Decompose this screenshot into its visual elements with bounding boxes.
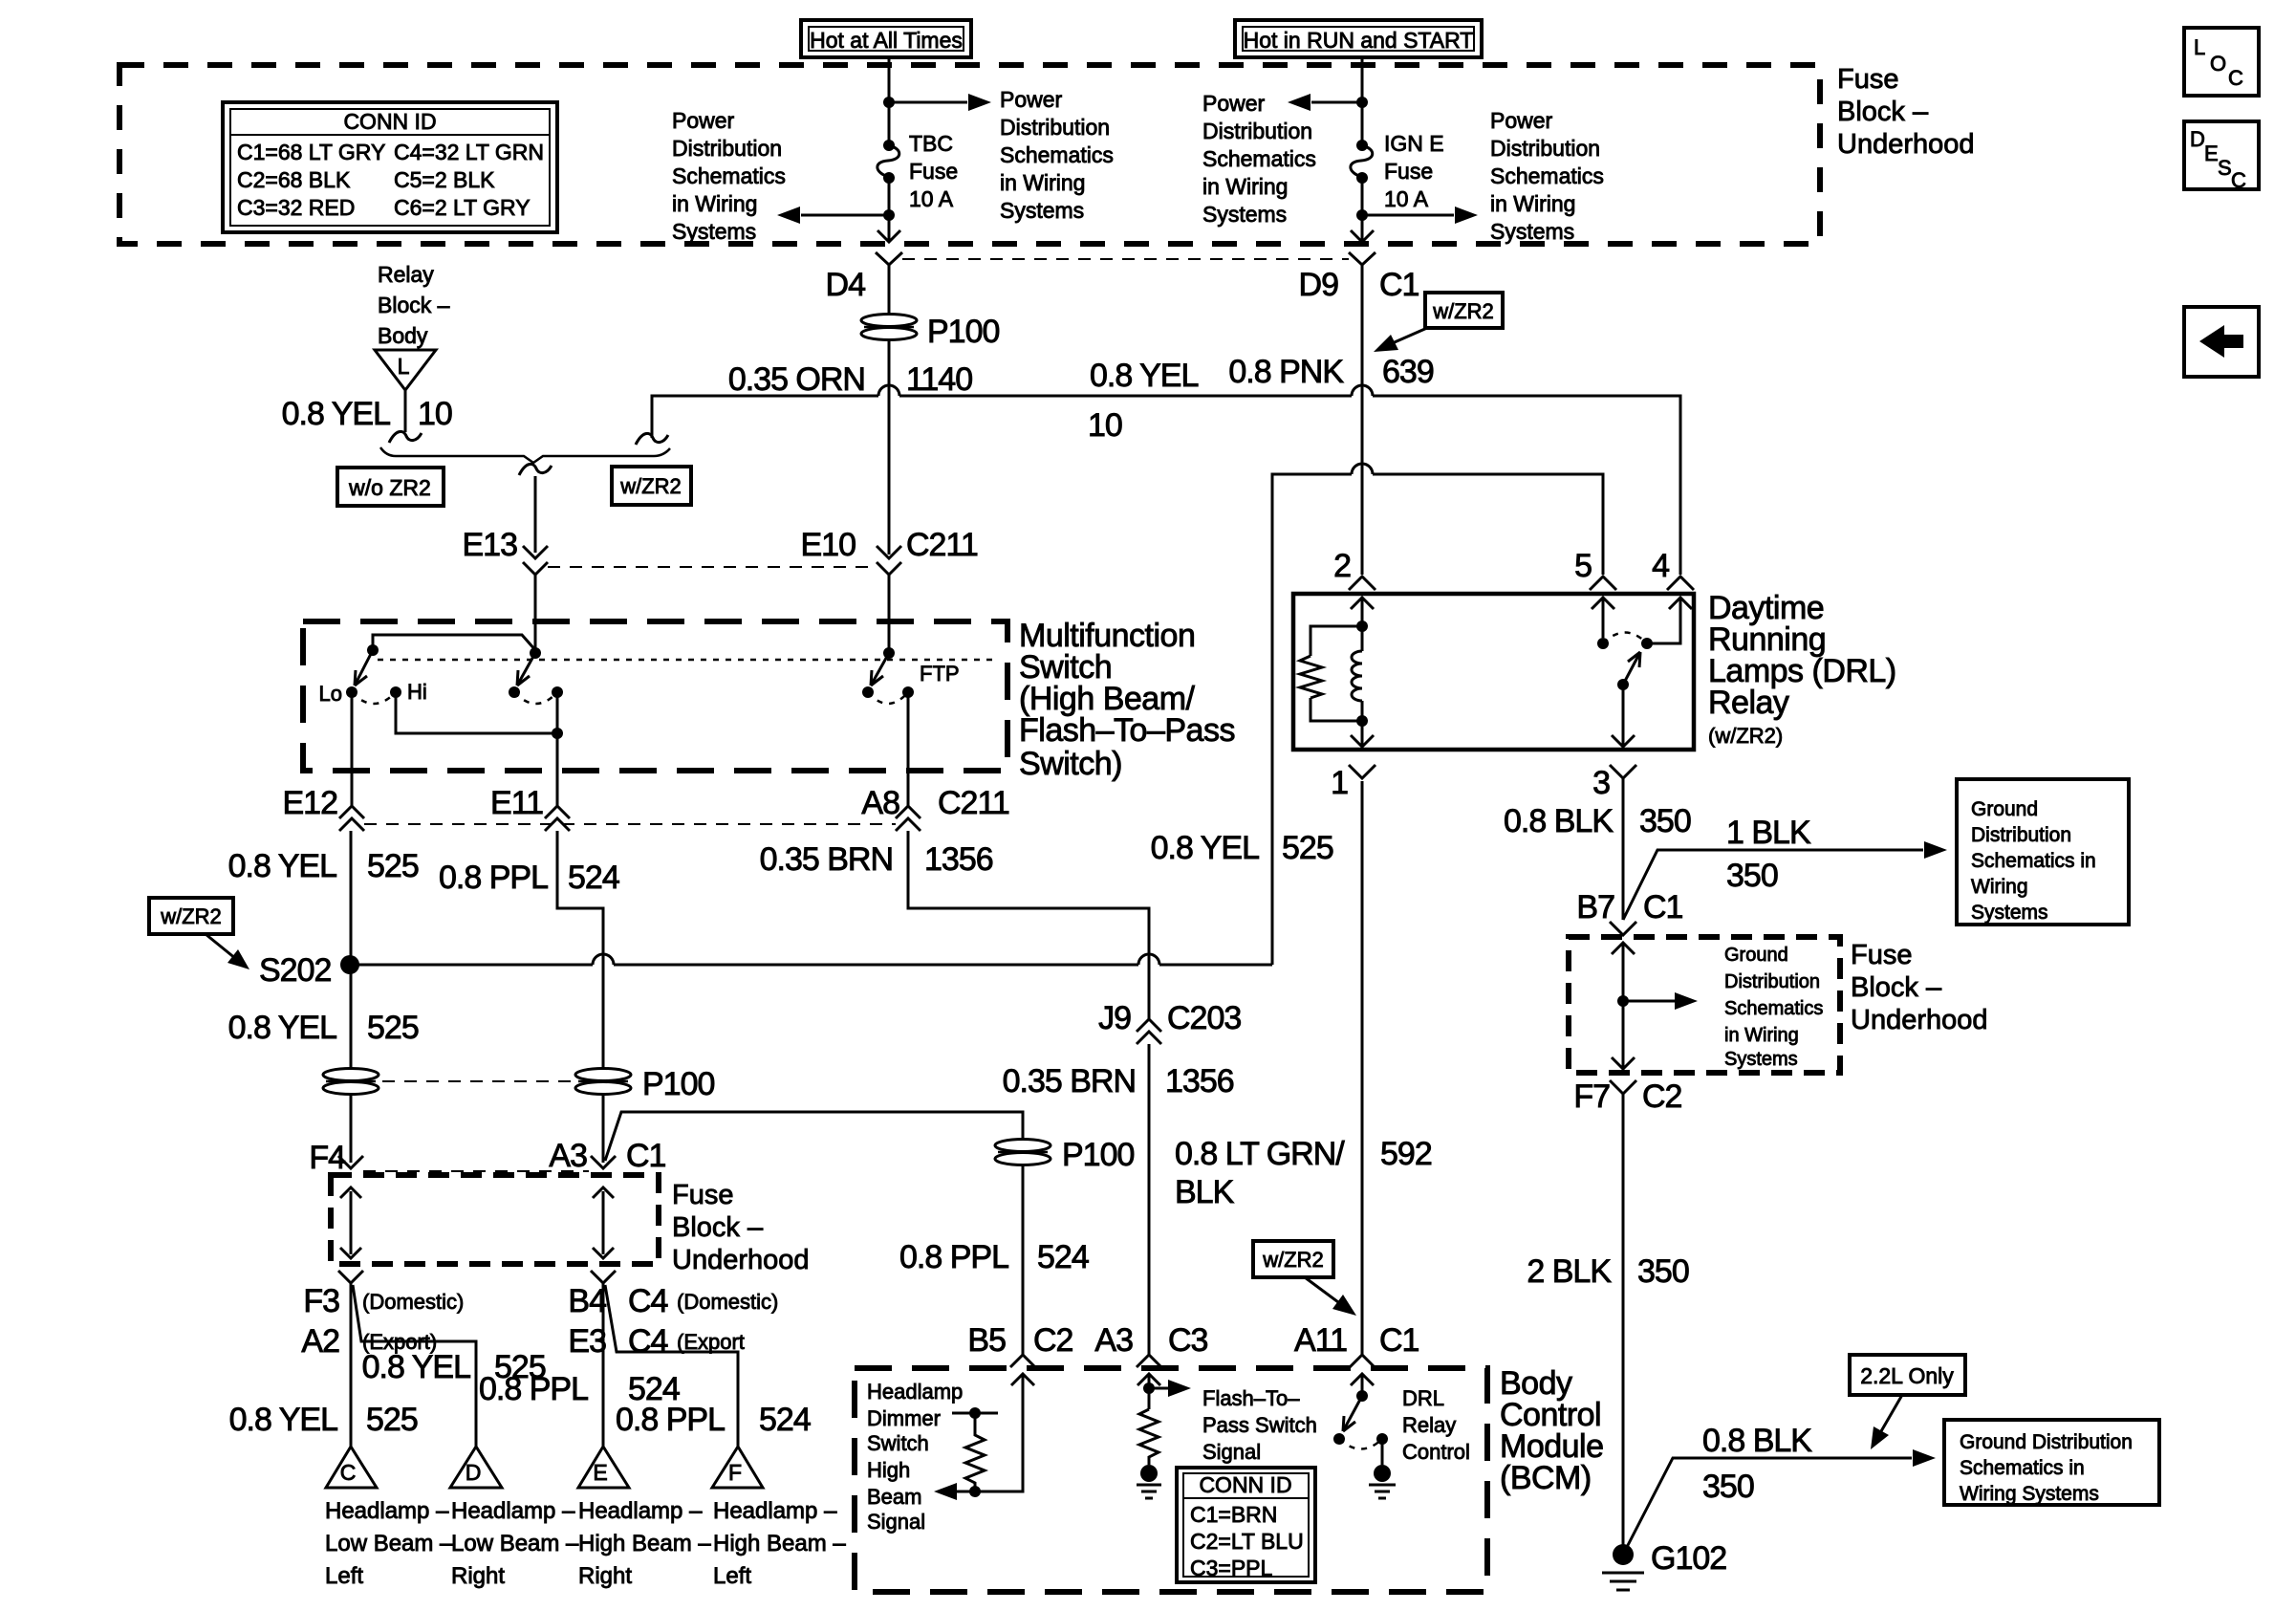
- svg-text:C1: C1: [1643, 889, 1683, 925]
- svg-text:Underhood: Underhood: [672, 1245, 810, 1275]
- connector: F7/C2 half: [1610, 1080, 1636, 1094]
- label: Headlamp High Beam Right: [578, 1498, 711, 1589]
- connector C211 E13 half: [523, 546, 548, 575]
- connector: relay pin 2: [1349, 577, 1375, 590]
- svg-text:525: 525: [367, 848, 419, 884]
- svg-text:0.8 PPL: 0.8 PPL: [899, 1239, 1008, 1275]
- connector: bulkhead dashed link D4-D9: [902, 258, 1349, 260]
- resistor: headlamp dimmer switch high beam: [965, 1418, 985, 1491]
- svg-text:B4: B4: [568, 1283, 606, 1319]
- svg-text:639: 639: [1382, 354, 1434, 390]
- svg-text:Distribution: Distribution: [1724, 971, 1820, 992]
- relay: Daytime Running Lamps relay box: [1293, 594, 1694, 750]
- svg-text:in Wiring: in Wiring: [672, 191, 757, 216]
- svg-text:Systems: Systems: [1000, 198, 1084, 223]
- wire: IGN E fuse to D9 with right arrow: [1361, 178, 1364, 241]
- switch arm: flash-to-pass: [871, 653, 889, 686]
- label: Headlamp Dimmer Switch High Beam Signal: [867, 1380, 963, 1534]
- svg-text:C211: C211: [938, 785, 1009, 821]
- node: FTP signal junction: [1143, 1382, 1155, 1394]
- svg-text:High Beam –: High Beam –: [713, 1531, 846, 1557]
- label: Body Control Module (BCM): [1500, 1365, 1604, 1496]
- svg-text:C4=32 LT GRN: C4=32 LT GRN: [394, 140, 544, 164]
- arc: relay switch throw: [1603, 633, 1647, 644]
- connector: dashed link between P100 grommets: [382, 1080, 572, 1082]
- svg-text:524: 524: [1037, 1239, 1089, 1275]
- svg-text:10: 10: [1088, 407, 1122, 444]
- arc: DRL control switch throw: [1339, 1439, 1382, 1449]
- svg-text:Block –: Block –: [1837, 97, 1929, 127]
- label: G102: [1651, 1540, 1726, 1577]
- callout box 2.2L Only: [1850, 1355, 1965, 1395]
- connector C211 A8 half: [896, 806, 921, 831]
- node: Hot at All Times feed box: [801, 20, 971, 57]
- svg-text:C6=2 LT GRY: C6=2 LT GRY: [394, 195, 531, 220]
- label: A3 C1 (fuse block): [549, 1138, 665, 1174]
- svg-text:Power: Power: [1202, 91, 1266, 116]
- terminal: headlamp C triangle: [326, 1447, 377, 1488]
- label: J9 C203: [1098, 1000, 1241, 1036]
- wire: dimmer resistor top tee: [952, 1412, 998, 1415]
- connector C100 D4 half: [876, 252, 902, 265]
- svg-text:S202: S202: [259, 952, 331, 989]
- label: relay pin 2: [1333, 548, 1351, 584]
- arrow: w/ZR2 callout to S202: [206, 934, 249, 969]
- arc: high beam switch throw: [514, 692, 557, 704]
- svg-text:1 BLK: 1 BLK: [1726, 815, 1811, 851]
- svg-text:C: C: [2231, 168, 2246, 192]
- label: IGN E Fuse 10 A: [1384, 131, 1444, 211]
- svg-text:A3: A3: [1094, 1322, 1133, 1359]
- junction hop: S202 bus over BRN wire: [1138, 954, 1159, 965]
- wire: S202 splice bus to relay feed: [350, 964, 1272, 967]
- node: fuse block ground junction: [1617, 995, 1629, 1007]
- wire: S202 down to P100: [350, 965, 353, 1074]
- svg-text:Systems: Systems: [1724, 1049, 1798, 1070]
- connector: relay pin 4: [1667, 577, 1694, 590]
- label: power distribution schematics (right of IGN E): [1490, 108, 1604, 244]
- label: P100 (high beam feed): [1062, 1137, 1134, 1173]
- node: FTP pivot: [883, 647, 895, 659]
- wire: 0.8 BLK 350 branch to ground distribution: [1625, 1449, 1936, 1551]
- label: 0.8 BLK 350: [1504, 803, 1691, 839]
- svg-text:J9: J9: [1098, 1000, 1131, 1036]
- svg-text:D: D: [2190, 127, 2205, 151]
- connector: BCM B5 half: [1010, 1355, 1035, 1367]
- label: power distribution schematics (right of TBC): [1000, 87, 1114, 223]
- svg-text:Ground Distribution: Ground Distribution: [1960, 1431, 2133, 1453]
- label: E12: [283, 785, 338, 821]
- wire: arrow to flash-to-pass signal: [1149, 1380, 1191, 1397]
- connector: BCM A11 half: [1350, 1355, 1375, 1367]
- node: coil top junction: [1356, 620, 1368, 632]
- arrow: w/ZR2 callout to 592 wire: [1305, 1277, 1356, 1316]
- label: Lo: [319, 682, 342, 706]
- label: relay pin 5: [1574, 548, 1592, 584]
- wire: Hi contact to E11 column: [396, 692, 557, 733]
- junction hop: pin5 branch over PNK wire: [1352, 464, 1373, 474]
- terminal: headlamp F triangle: [712, 1447, 763, 1488]
- node: relay armature pivot: [1617, 679, 1629, 690]
- fuse block underhood dashed enclosure (ground): [1569, 937, 1840, 1073]
- arc: dimmer switch throw: [352, 692, 396, 704]
- callout box w/ZR2 at S202: [149, 898, 233, 934]
- label: 0.35 ORN 1140: [728, 361, 972, 398]
- label: 0.8 PPL 524 (branch E): [479, 1371, 680, 1407]
- svg-text:Signal: Signal: [1202, 1440, 1261, 1464]
- svg-text:0.8 YEL: 0.8 YEL: [1151, 830, 1259, 866]
- label: TBC Fuse 10 A: [909, 131, 958, 211]
- switch arm: dimmer (Lo/Hi): [355, 650, 373, 686]
- svg-text:Power: Power: [1000, 87, 1063, 112]
- svg-text:P100: P100: [642, 1066, 714, 1102]
- resistor: relay shunt resistor: [1300, 626, 1362, 721]
- node: splice S202: [340, 955, 359, 974]
- svg-text:E: E: [593, 1460, 607, 1485]
- svg-text:P100: P100: [927, 314, 999, 350]
- label: relay pin 4: [1652, 548, 1669, 584]
- svg-text:Schematics in: Schematics in: [1960, 1457, 2085, 1479]
- grommet P100 (left pair, PPL wire): [575, 1069, 631, 1095]
- svg-text:592: 592: [1380, 1136, 1432, 1172]
- svg-text:IGN E: IGN E: [1384, 131, 1444, 156]
- connector: B7/C1 half: [1610, 922, 1636, 935]
- label: 0.8 YEL 525 (branch D): [362, 1349, 546, 1385]
- svg-text:Wiring Systems: Wiring Systems: [1960, 1483, 2099, 1505]
- arrow: TBC wire exits fuse block: [877, 230, 900, 242]
- svg-text:0.35 ORN: 0.35 ORN: [728, 361, 865, 398]
- junction hop: S202 bus over PPL wire: [593, 954, 614, 965]
- svg-text:A3: A3: [549, 1138, 587, 1174]
- node: high beam arm contact right: [552, 686, 563, 698]
- wire: merged drop to E13: [534, 476, 537, 553]
- connector: dashed link F4-A3: [363, 1170, 589, 1172]
- label: 0.8 YEL 525 (E12): [228, 848, 419, 884]
- svg-text:Fuse: Fuse: [1851, 940, 1912, 970]
- wire: armature to pin 3 exit arrow: [1612, 685, 1635, 747]
- svg-text:Low Beam –: Low Beam –: [451, 1531, 579, 1557]
- grommet P100 (left pair, YEL wire): [323, 1069, 379, 1095]
- svg-text:A2: A2: [301, 1323, 339, 1360]
- node: high-beam feed node: [530, 647, 541, 659]
- ground: FTP signal ground: [1137, 1465, 1161, 1498]
- resistor: flash-to-pass pulldown: [1139, 1409, 1159, 1465]
- wire: high beam left branch: [605, 1285, 738, 1447]
- label: Multifunction Switch (High Beam/Flash-To-Pass Switch): [1019, 618, 1235, 782]
- label: F4: [309, 1140, 345, 1176]
- svg-text:(Export: (Export: [677, 1330, 745, 1354]
- svg-text:0.8 YEL: 0.8 YEL: [1090, 358, 1198, 394]
- svg-text:CONN ID: CONN ID: [343, 109, 436, 134]
- svg-text:0.8 BLK: 0.8 BLK: [1702, 1423, 1812, 1459]
- label: B5 C2: [967, 1322, 1072, 1359]
- svg-text:Control: Control: [1402, 1440, 1470, 1464]
- wire: B5 entry arrow into BCM: [975, 1374, 1034, 1491]
- svg-text:Relay: Relay: [1402, 1413, 1456, 1437]
- svg-text:w/ZR2: w/ZR2: [1262, 1248, 1324, 1272]
- label: F7 C2: [1573, 1078, 1681, 1115]
- svg-text:Block –: Block –: [378, 293, 450, 317]
- switch arm: high beam output: [517, 653, 535, 686]
- svg-text:0.8 LT GRN/: 0.8 LT GRN/: [1175, 1136, 1345, 1172]
- label: P100 (pair): [642, 1066, 714, 1102]
- wire: low beam left feed: [350, 1283, 353, 1447]
- label: 1 BLK 350: [1726, 815, 1811, 894]
- svg-text:0.35 BRN: 0.35 BRN: [760, 841, 893, 878]
- label: Fuse Block - Underhood (top right): [1837, 64, 1975, 160]
- svg-text:F3: F3: [303, 1283, 339, 1319]
- svg-text:524: 524: [759, 1402, 811, 1438]
- label: DRL Relay Control: [1402, 1386, 1470, 1464]
- node: dimmer arm pivot: [367, 644, 379, 656]
- svg-text:C1: C1: [1379, 1322, 1419, 1359]
- wire: 2 BLK 350 to G102: [1622, 1094, 1625, 1555]
- callout box w/ZR2 (brace): [612, 467, 691, 505]
- CONN ID table (BCM): [1177, 1468, 1315, 1582]
- svg-text:Underhood: Underhood: [1851, 1005, 1988, 1035]
- label: Headlamp Low Beam Left: [325, 1498, 453, 1589]
- svg-text:Right: Right: [451, 1563, 505, 1589]
- svg-text:F7: F7: [1573, 1078, 1610, 1115]
- label: B7 C1: [1576, 889, 1682, 925]
- svg-text:A8: A8: [861, 785, 899, 821]
- label: P100 (top): [927, 314, 999, 350]
- wire: 0.35 BRN down to BCM A3: [1148, 1044, 1151, 1355]
- svg-text:0.8 PNK: 0.8 PNK: [1228, 354, 1344, 390]
- svg-text:0.8 YEL: 0.8 YEL: [362, 1349, 470, 1385]
- svg-text:C: C: [340, 1460, 357, 1485]
- label: 0.8 PNK 639: [1228, 354, 1433, 390]
- svg-text:C4: C4: [628, 1283, 668, 1319]
- wire: 0.8 YEL 10 bus from w/ZR2 branch to relay pin 4: [652, 396, 1680, 575]
- wire: NC contact to pin 4 arrow: [1647, 598, 1692, 643]
- node: DRL control contact: [1376, 1433, 1388, 1445]
- label: Headlamp Low Beam Right: [451, 1498, 579, 1589]
- svg-text:Fuse: Fuse: [909, 159, 958, 184]
- label: 0.8 BLK 350 (bottom): [1702, 1423, 1812, 1505]
- label: 0.35 BRN 1356 (below C203): [1003, 1063, 1234, 1099]
- svg-text:350: 350: [1726, 858, 1778, 894]
- switch arm: relay armature: [1623, 652, 1640, 685]
- svg-text:(Domestic): (Domestic): [677, 1290, 778, 1314]
- wire: arrow to power distribution right of TBC: [889, 94, 991, 111]
- fuse IGN E 10A: [1351, 140, 1373, 184]
- wire: relay pin 5 entry arrow: [1592, 598, 1614, 638]
- node: high beam arm contact left: [509, 686, 520, 698]
- wire: A11 entry arrow into BCM: [1351, 1374, 1374, 1394]
- svg-text:in Wiring: in Wiring: [1000, 170, 1085, 195]
- label: 2 BLK 350: [1527, 1253, 1688, 1290]
- label: 0.8 LT GRN/BLK 592: [1175, 1136, 1432, 1210]
- label: A3 C3: [1094, 1322, 1207, 1359]
- svg-text:Systems: Systems: [1490, 219, 1574, 244]
- label: D4: [826, 267, 866, 303]
- node: dimmer resistor top junction: [969, 1407, 981, 1419]
- label: power distribution schematics (left of IGN E): [1202, 91, 1316, 227]
- svg-text:Power: Power: [1490, 108, 1553, 133]
- svg-text:L: L: [398, 354, 410, 379]
- arrow: IGN E wire exits fuse block: [1351, 230, 1374, 242]
- svg-text:F: F: [728, 1460, 742, 1485]
- svg-text:C1: C1: [1379, 267, 1419, 303]
- svg-text:Pass Switch: Pass Switch: [1202, 1413, 1317, 1437]
- junction hop: bus over PNK wire: [1352, 385, 1373, 396]
- svg-text:3: 3: [1592, 765, 1610, 801]
- connector C100 D9 half: [1349, 252, 1375, 265]
- wire: E12 lead down to S202: [350, 831, 353, 965]
- grommet P100 (high beam feed): [995, 1140, 1051, 1165]
- node: dimmer resistor bottom junction: [969, 1486, 981, 1497]
- svg-text:Distribution: Distribution: [1202, 119, 1312, 143]
- node: Lo contact: [346, 686, 357, 698]
- svg-text:Distribution: Distribution: [1000, 115, 1110, 140]
- label: Headlamp High Beam Left: [713, 1498, 846, 1589]
- node: coil bottom junction: [1356, 715, 1368, 727]
- svg-text:Systems: Systems: [672, 219, 756, 244]
- label: Fuse Block - Underhood (ground): [1851, 940, 1988, 1035]
- connector: dashed link E12-E11-A8: [364, 823, 896, 825]
- svg-text:in Wiring: in Wiring: [1202, 174, 1288, 199]
- svg-text:Headlamp –: Headlamp –: [578, 1498, 703, 1524]
- connector: F4 half: [338, 1156, 363, 1168]
- node: junction Hi-E11: [552, 728, 563, 739]
- svg-text:525: 525: [1282, 830, 1333, 866]
- svg-text:Schematics: Schematics: [1724, 998, 1823, 1019]
- svg-text:(w/ZR2): (w/ZR2): [1708, 724, 1783, 748]
- svg-text:Low Beam –: Low Beam –: [325, 1531, 453, 1557]
- svg-text:1: 1: [1331, 765, 1348, 801]
- svg-text:(BCM): (BCM): [1500, 1460, 1592, 1496]
- svg-text:Distribution: Distribution: [1490, 136, 1600, 161]
- BCM dashed enclosure: [855, 1368, 1487, 1592]
- icon: back arrow box: [2184, 307, 2259, 377]
- svg-text:Relay: Relay: [378, 262, 434, 287]
- svg-text:10: 10: [418, 396, 452, 432]
- svg-text:Wiring: Wiring: [1971, 876, 2028, 898]
- switch arm: DRL relay control: [1343, 1396, 1362, 1431]
- svg-text:Left: Left: [325, 1563, 363, 1589]
- ground: DRL control ground: [1369, 1439, 1396, 1498]
- label: relay pin 3: [1592, 765, 1610, 801]
- label: relay pin 1: [1331, 765, 1348, 801]
- svg-text:A11: A11: [1294, 1322, 1347, 1359]
- wire: YEL down to F4: [350, 1095, 353, 1163]
- label: F3 (Domestic) A2 (Export): [301, 1283, 464, 1360]
- inductor: relay coil: [1352, 626, 1362, 721]
- label: B4 C4 (Domestic) E3 C4 (Export): [568, 1283, 778, 1360]
- wire: E11 output down: [556, 692, 559, 806]
- svg-text:Dimmer: Dimmer: [867, 1406, 941, 1430]
- svg-text:Power: Power: [672, 108, 735, 133]
- fuse TBC 10A: [877, 140, 899, 184]
- wire: DRL control 592 from relay pin 1 to BCM A11: [1361, 781, 1364, 1355]
- label: 0.8 YEL 10 (bus): [1088, 358, 1198, 444]
- grommet P100 (top): [861, 315, 917, 340]
- svg-text:Schematics: Schematics: [1490, 163, 1604, 188]
- break: wire interrupt under L: [389, 431, 422, 443]
- svg-text:Hi: Hi: [407, 680, 427, 704]
- node: relay contact NO: [1597, 638, 1609, 649]
- svg-text:E10: E10: [801, 527, 856, 563]
- svg-text:1140: 1140: [906, 361, 972, 398]
- svg-text:D4: D4: [826, 267, 866, 303]
- svg-text:Right: Right: [578, 1563, 632, 1589]
- svg-text:Left: Left: [713, 1563, 751, 1589]
- icon: LOC page box: [2184, 28, 2259, 96]
- svg-text:C5=2 BLK: C5=2 BLK: [394, 167, 495, 192]
- svg-text:525: 525: [367, 1010, 419, 1046]
- junction hop: bus over ORN wire: [878, 385, 899, 396]
- wire: TBC fuse to D4 with left arrow: [888, 178, 891, 241]
- fuse block underhood dashed enclosure: [119, 65, 1820, 244]
- svg-text:E11: E11: [490, 785, 543, 821]
- svg-text:C1: C1: [626, 1138, 666, 1174]
- svg-text:Block –: Block –: [672, 1212, 764, 1243]
- svg-text:Flash–To–: Flash–To–: [1202, 1386, 1300, 1410]
- break: wire interrupt under brace: [519, 464, 552, 475]
- svg-text:Signal: Signal: [867, 1510, 925, 1534]
- terminal: headlamp D triangle: [450, 1447, 502, 1488]
- node: FTP contact right: [902, 686, 914, 698]
- node: DRL control switch top: [1356, 1390, 1368, 1402]
- label: 0.8 YEL 525 (relay feed): [1151, 830, 1333, 866]
- svg-text:0.8 PPL: 0.8 PPL: [439, 860, 548, 896]
- svg-text:Schematics: Schematics: [1000, 142, 1114, 167]
- svg-text:2.2L Only: 2.2L Only: [1860, 1363, 1954, 1388]
- connector: F3/A2 half: [338, 1271, 363, 1283]
- svg-text:C1=BRN: C1=BRN: [1190, 1502, 1277, 1527]
- connector: relay pin 3: [1610, 765, 1636, 778]
- svg-text:350: 350: [1639, 803, 1691, 839]
- svg-text:4: 4: [1652, 548, 1669, 584]
- svg-text:Switch: Switch: [867, 1431, 929, 1455]
- svg-text:Headlamp –: Headlamp –: [713, 1498, 837, 1524]
- svg-text:10 A: 10 A: [909, 186, 954, 211]
- label: 0.8 PPL 524 (BCM feed): [899, 1239, 1089, 1275]
- svg-text:1356: 1356: [924, 841, 993, 878]
- svg-text:0.35 BRN: 0.35 BRN: [1003, 1063, 1136, 1099]
- svg-text:Body: Body: [378, 323, 428, 348]
- label: A8 C211: [861, 785, 1008, 821]
- svg-text:C: C: [2228, 66, 2243, 90]
- svg-text:High: High: [867, 1458, 910, 1482]
- node: DRL control pivot: [1333, 1433, 1345, 1445]
- wire: 0.8 PNK from D9 down to DRL relay pin 2: [1361, 265, 1364, 575]
- svg-text:E12: E12: [283, 785, 338, 821]
- label: 0.8 YEL 525 (lamp C): [229, 1402, 418, 1438]
- connector: dashed link E13-E10: [548, 566, 871, 568]
- svg-text:Fuse: Fuse: [1837, 64, 1898, 95]
- label: S202: [259, 952, 331, 989]
- svg-text:C3=PPL: C3=PPL: [1190, 1556, 1273, 1580]
- svg-text:C1=68 LT GRY: C1=68 LT GRY: [237, 140, 385, 164]
- wire: E13 into switch common: [534, 575, 537, 653]
- wire: link from common node to dimmer arm pivot: [373, 635, 536, 651]
- svg-text:Block –: Block –: [1851, 972, 1942, 1003]
- svg-text:Lo: Lo: [319, 682, 342, 706]
- svg-text:B7: B7: [1576, 889, 1614, 925]
- label: Daytime Running Lamps (DRL) Relay (w/ZR2): [1708, 590, 1896, 748]
- node: Hot in RUN and START feed box: [1235, 20, 1482, 57]
- ground G102: [1602, 1544, 1644, 1590]
- wire: relay coil feed pin 2 entry arrow: [1351, 598, 1374, 626]
- svg-text:FTP: FTP: [920, 662, 960, 686]
- svg-text:C3: C3: [1168, 1322, 1208, 1359]
- connector C211 E10 half: [877, 546, 901, 575]
- svg-text:524: 524: [568, 860, 619, 896]
- label: A11 C1: [1294, 1322, 1419, 1359]
- label: ground distribution schematics (inside fuse block): [1724, 945, 1823, 1070]
